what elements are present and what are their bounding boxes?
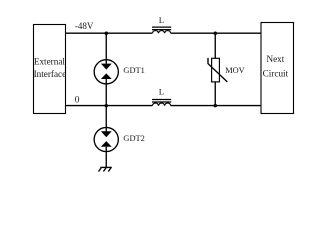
label L (bottom): [159, 86, 164, 96]
wire bottom 0 net left segment: [66, 105, 153, 107]
wire GDT1 top lead: [105, 33, 107, 64]
label L (top): [159, 15, 164, 25]
ground: [99, 167, 112, 171]
box External Interface: [34, 25, 67, 114]
wire top -48V net right segment: [171, 32, 261, 34]
wire MOV top lead: [214, 33, 216, 58]
svg-text:0: 0: [75, 96, 80, 106]
wire GDT2 bottom lead: [105, 152, 107, 168]
label GDT2: [123, 134, 144, 143]
svg-text:-48V: -48V: [75, 21, 94, 31]
svg-text:Next: Next: [266, 54, 284, 64]
wire bottom 0 net right segment: [171, 105, 261, 107]
gas discharge tube GDT2: [94, 127, 118, 151]
inductor L (bottom): [152, 100, 171, 106]
node junction dot bottom-left: [105, 104, 109, 108]
varistor MOV: [208, 58, 227, 82]
node junction dot bottom-right: [214, 104, 218, 108]
svg-text:GDT1: GDT1: [123, 66, 144, 75]
svg-text:Circuit: Circuit: [263, 69, 289, 79]
svg-text:MOV: MOV: [225, 66, 245, 75]
wire GDT1 bottom lead: [105, 84, 107, 106]
wire MOV bottom lead: [214, 81, 216, 105]
inductor L (top): [152, 27, 171, 33]
label MOV: [225, 66, 245, 75]
box Next Circuit: [261, 23, 294, 114]
svg-text:External: External: [34, 56, 66, 66]
svg-text:L: L: [159, 15, 164, 25]
label 0: [75, 96, 80, 106]
node junction dot top-left: [105, 31, 109, 35]
svg-text:GDT2: GDT2: [123, 134, 144, 143]
wire top -48V net left segment: [66, 32, 153, 34]
node junction dot top-right: [214, 31, 218, 35]
svg-text:Interface: Interface: [34, 69, 67, 79]
label -48V: [75, 21, 94, 31]
svg-text:L: L: [159, 86, 164, 96]
gas discharge tube GDT1: [94, 60, 118, 84]
wire GDT2 top lead: [105, 106, 107, 132]
label GDT1: [123, 66, 144, 75]
